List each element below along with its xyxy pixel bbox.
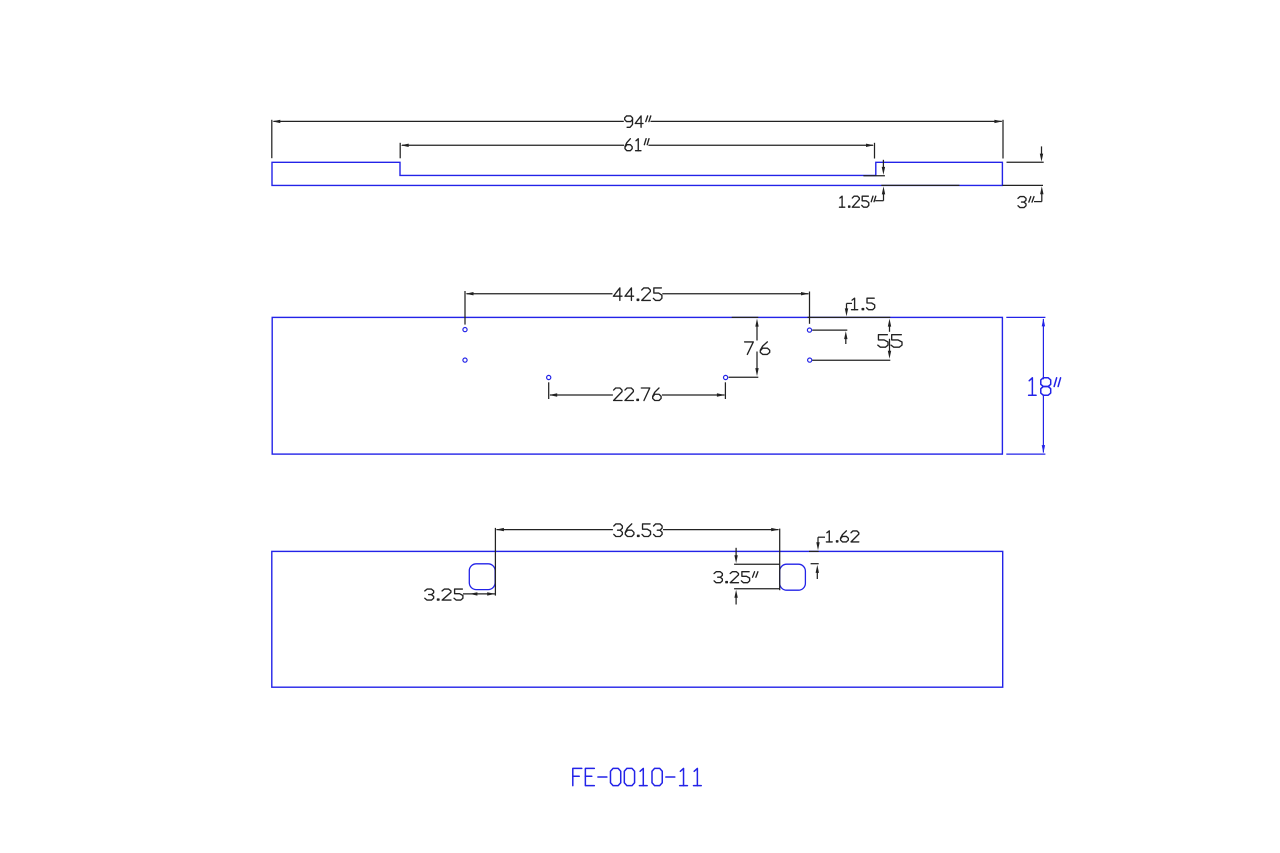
dim 22.76 left arrowhead — [549, 393, 557, 396]
hole C1 — [807, 328, 811, 332]
dim 22.76 right arrowhead — [717, 393, 725, 396]
dim 7.6 top extension over plate edge — [732, 316, 759, 318]
dim 36.53 left arrowhead — [496, 528, 504, 531]
dim 94in left arrowhead — [272, 120, 280, 123]
dim 3.25 vertical up arrowhead — [734, 590, 737, 598]
dim 1.25in down arrow stem — [882, 160, 884, 168]
dim 1.25in down arrowhead — [882, 167, 885, 175]
dim 61in dimension line left segment — [402, 144, 624, 146]
dim 1.25in label — [840, 196, 842, 207]
dim 44.25 dimension line right segment — [662, 293, 808, 295]
dim 61in left arrowhead — [401, 144, 409, 147]
dim 3in down arrowhead — [1040, 154, 1043, 162]
hole B1 — [547, 375, 551, 379]
dim 1.62 up arrow stem — [816, 572, 818, 579]
dim 3.25 vertical lower stem — [735, 597, 737, 605]
slot hole right — [780, 564, 806, 590]
dim 1.5 top edge black overlap — [808, 316, 891, 318]
dim 44.25 right extension — [809, 292, 811, 324]
dim 1.25in bottom-edge extension segment — [881, 184, 959, 186]
dim 1.5 hole row extension — [812, 329, 847, 331]
dim 1.5 up arrowhead — [844, 331, 847, 339]
dim 7.6 label digit 7 — [745, 342, 754, 355]
hole A1 — [463, 328, 467, 332]
dim 18in dimension line lower segment — [1042, 394, 1044, 452]
dim 18in down arrowhead — [1042, 445, 1045, 453]
dim 5.5 hole row extension — [812, 359, 890, 361]
dim 3in up arrow stem — [1041, 193, 1043, 202]
dim 3.25 vertical label — [714, 572, 722, 578]
dim 3.25 vertical top extension — [734, 563, 780, 565]
dim 7.6 upper stem — [756, 325, 758, 340]
dim 36.53 label — [614, 524, 623, 530]
hole A2 — [463, 358, 467, 362]
hole B2 — [724, 375, 728, 379]
dim 44.25 dimension line left segment — [467, 293, 613, 295]
dim 18in label — [1029, 378, 1032, 395]
dim 3in down arrow stem — [1041, 146, 1043, 154]
dim 22.76 dimension line right segment — [662, 394, 725, 396]
dim 22.76 label — [614, 388, 622, 401]
drawing title FE-0010-11 — [573, 768, 582, 785]
slot hole left — [469, 564, 495, 590]
dim 94in right arrowhead — [994, 120, 1002, 123]
dim 3.25 vertical upper stem — [735, 548, 737, 557]
dim 36.53 dimension line right segment — [663, 529, 779, 531]
dim 7.6 bottom extension — [729, 376, 759, 378]
dim 3in bottom extension — [1002, 184, 1043, 186]
dim 18in dimension line upper segment — [1042, 319, 1044, 379]
dim 1.5 label — [852, 298, 855, 310]
dim 18in up arrowhead — [1042, 318, 1045, 326]
top view: bumper side profile outline — [272, 162, 1002, 185]
dim 44.25 left arrowhead — [466, 292, 474, 295]
dim 61in left extension line — [399, 143, 401, 159]
dim 36.53 dimension line left segment — [497, 529, 613, 531]
dim 1.62 hole-top extension bar — [811, 563, 819, 565]
dim 18in top extension (blue) — [1006, 316, 1045, 318]
dim 22.76 left extension — [548, 382, 550, 399]
dim 3.25 horizontal right arrowhead — [487, 592, 495, 595]
dim 5.5 mid stem — [889, 339, 891, 353]
bottom view: plate face rectangle — [272, 551, 1003, 687]
dim 36.53 left extension — [494, 528, 496, 596]
dim 94in left extension line — [271, 120, 273, 158]
dim 1.5 down stem — [846, 303, 848, 310]
dim 7.6 down arrowhead — [755, 368, 758, 376]
dim 7.6 up arrowhead — [755, 319, 758, 327]
dim 1.62 leader hook — [818, 536, 825, 538]
dim 94in dimension line right segment — [651, 120, 1002, 122]
dim 94in right extension line — [1002, 120, 1004, 159]
dim 5.5 up arrowhead — [888, 319, 891, 327]
dim 1.62 up arrowhead — [816, 565, 819, 573]
dim 1.62 top edge black overlap — [809, 550, 819, 552]
dim 7.6 label digit 6 — [760, 342, 769, 355]
dim 3.25 vertical bottom extension — [734, 588, 780, 590]
dim 1.62 label — [827, 531, 829, 542]
dim 3.25 horizontal left arrowhead — [469, 592, 477, 595]
dim 3in top extension — [1007, 161, 1044, 163]
dim 1.5 down arrowhead — [845, 308, 848, 316]
dim 18in bottom extension (blue) — [1006, 453, 1045, 455]
dim 1.25in up arrow stem — [883, 193, 885, 201]
dim 1.5 up arrow stem — [845, 338, 847, 344]
dim 3.25 horizontal label — [425, 589, 434, 595]
dim 1.62 down stem — [817, 537, 819, 544]
dim 3.25 vertical down arrowhead — [734, 555, 737, 563]
hole C2 — [808, 358, 812, 362]
dim 36.53 right arrowhead — [771, 528, 779, 531]
dim 61in right extension line — [874, 143, 876, 159]
dim 1.5 leader hook — [847, 302, 853, 304]
dim 3in up arrowhead — [1040, 186, 1043, 194]
dim 5.5 down arrowhead — [888, 351, 891, 359]
dim 44.25 left extension — [464, 291, 466, 325]
dim 22.76 dimension line left segment — [550, 394, 613, 396]
dim 3.25 horizontal dimension line — [463, 593, 495, 595]
dim 94in label — [625, 116, 633, 122]
dim 22.76 right extension — [724, 382, 726, 399]
dim 94in dimension line left segment — [274, 120, 624, 122]
dim 1.25in leader hook — [875, 200, 883, 202]
dim 3in leader hook — [1034, 201, 1042, 203]
dim 44.25 label — [613, 288, 622, 301]
dim 5.5 label digit 5 right — [891, 335, 902, 348]
dim 61in dimension line right segment — [648, 144, 873, 146]
dim 1.25in recessed-edge extension — [863, 175, 885, 177]
dim 44.25 right arrowhead — [801, 292, 809, 295]
dim 1.25in up arrowhead — [882, 186, 885, 194]
dim 1.62 down arrowhead — [816, 542, 819, 550]
dim 61in label — [625, 139, 632, 151]
dim 61in right arrowhead — [866, 144, 874, 147]
dim 5.5 upper stem — [889, 325, 891, 331]
dim 7.6 lower stem — [756, 352, 758, 370]
dim 36.53 right extension — [779, 529, 781, 591]
dim 3in label — [1018, 197, 1026, 203]
middle view: plate face rectangle — [272, 317, 1002, 454]
dim 5.5 label digit 5 left — [878, 335, 888, 348]
